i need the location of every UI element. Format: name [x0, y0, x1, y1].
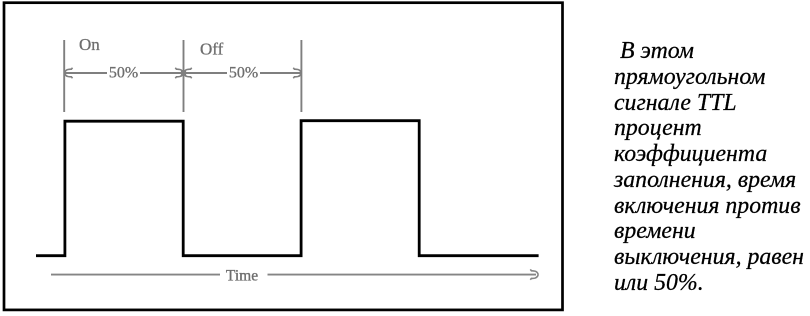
- time axis left segment: [51, 274, 220, 276]
- svg-text:Time: Time: [226, 268, 258, 285]
- arrowhead pair at x=183.5: [175, 68, 191, 78]
- dimension arrow shaft right segment (Off): [184, 72, 228, 74]
- svg-text:50%: 50%: [229, 65, 258, 82]
- extension line 1 (On start): [63, 40, 65, 112]
- square wave TTL signal: [36, 121, 539, 256]
- svg-text:50%: 50%: [109, 65, 138, 82]
- center overlap blob at x=183.5: [181, 71, 186, 76]
- extension line 3 (Off end): [300, 40, 302, 112]
- extension line 2 (On/Off boundary): [183, 40, 185, 112]
- dimension arrow shaft left segment (On): [64, 72, 107, 74]
- arrowhead left-pointing at x=64: [65, 68, 73, 78]
- description paragraph (Russian): [614, 39, 810, 297]
- svg-text:Off: Off: [200, 40, 224, 59]
- time axis arrowhead: [530, 269, 538, 279]
- outer frame box: [4, 3, 563, 310]
- time axis right segment: [268, 274, 537, 276]
- svg-text:On: On: [79, 35, 100, 54]
- arrowhead right-pointing at x=301: [293, 68, 301, 78]
